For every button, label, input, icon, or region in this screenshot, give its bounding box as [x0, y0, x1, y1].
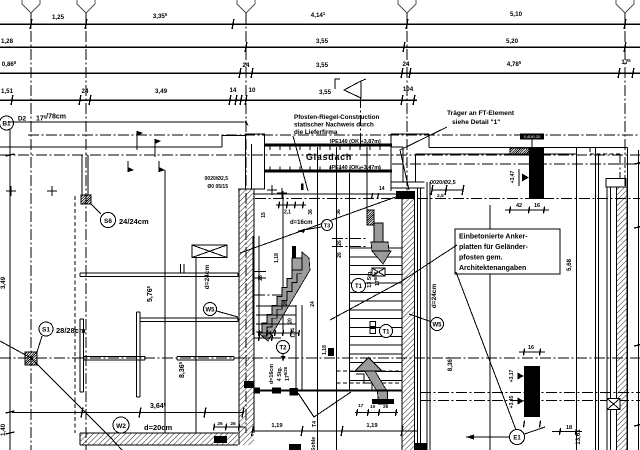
svg-text:platten für Geländer-: platten für Geländer-: [459, 244, 529, 251]
wall line x=595: [595, 148, 597, 450]
niche rect: [606, 179, 626, 188]
leader S6: [91, 204, 101, 214]
svg-text:5,20: 5,20: [506, 38, 519, 45]
beam leader line B1: [8, 120, 249, 127]
small dim line y=203: [276, 202, 306, 216]
labels left of stair wall: [205, 176, 229, 190]
step dim line: [259, 330, 300, 336]
svg-text:42: 42: [516, 203, 522, 209]
leader traeger: [400, 127, 447, 190]
svg-text:Sohle: Sohle: [311, 437, 317, 450]
plus mark 2: [47, 186, 57, 196]
stair line x=317.5: [317, 147, 319, 450]
sight line x=196: [195, 258, 197, 433]
wall line x=598: [598, 154, 600, 450]
svg-text:26: 26: [283, 300, 289, 306]
treads right flight upper: [350, 248, 402, 283]
wall line x=430: [429, 182, 431, 450]
stair line x=336.5: [336, 147, 338, 450]
svg-text:3,49: 3,49: [0, 276, 7, 289]
short axis y=295: [254, 294, 283, 296]
main axis y=358: [0, 357, 640, 359]
wall stub x=82: [82, 155, 88, 195]
right edge dim line: [634, 150, 640, 450]
interior wall horizontal upper: [80, 264, 238, 277]
right wall hatched: [617, 187, 628, 450]
dim 26/26 above bottom wall: [213, 421, 245, 431]
svg-text:14: 14: [230, 87, 237, 94]
svg-text:1,54: 1,54: [291, 328, 297, 338]
anchor plate on landing 3: [254, 388, 260, 394]
anchor mark 1: [137, 131, 143, 150]
text traeger: [447, 110, 515, 126]
svg-text:T1: T1: [382, 330, 390, 336]
svg-text:die Lieferfirma: die Lieferfirma: [294, 129, 338, 136]
sight line x=165: [164, 170, 166, 433]
stair flight upper (section): [257, 252, 310, 341]
stair dashed y=383: [337, 382, 403, 384]
svg-text:5,68: 5,68: [566, 258, 573, 271]
axis line y=135: [28, 134, 640, 136]
svg-text:W5: W5: [206, 308, 216, 314]
svg-text:1,18: 1,18: [322, 345, 328, 355]
anchor plate bottom right: [415, 443, 427, 450]
ticks below column: [523, 421, 540, 428]
wall label W2: [113, 417, 172, 433]
beam box with cross: [192, 245, 227, 258]
svg-text:T3: T3: [324, 224, 330, 230]
stair dashed y=371: [337, 370, 403, 372]
axis line y=198: [255, 198, 640, 200]
svg-text:15: 15: [261, 212, 267, 218]
svg-text:0020/Ø2,5: 0020/Ø2,5: [205, 176, 229, 182]
text pfosten-riegel: [294, 114, 380, 136]
black mark bottom center: [289, 444, 301, 450]
dashed line x=75: [74, 196, 76, 433]
svg-text:W2: W2: [116, 423, 126, 430]
anchor plate at wall landing: [244, 381, 254, 388]
stair line x=283: [282, 191, 284, 330]
svg-text:+3,45: +3,45: [509, 395, 515, 408]
svg-text:1,51: 1,51: [1, 88, 14, 95]
level mark +3,17: [509, 369, 524, 382]
svg-text:16: 16: [534, 203, 540, 209]
svg-text:10: 10: [249, 87, 256, 94]
dim 24 small: [254, 331, 281, 341]
treads right flight: [350, 292, 402, 380]
leader pfosten: [293, 136, 308, 191]
svg-text:D2: D2: [18, 116, 27, 123]
dimension chain row 1: [0, 11, 640, 29]
interior wall horizontal mid: [140, 318, 238, 322]
anchor plate in bottom wall: [214, 436, 227, 443]
axis line y=400: [420, 400, 640, 402]
dim line y=430 center: [252, 423, 418, 436]
svg-text:Glasdach: Glasdach: [306, 152, 352, 162]
svg-text:16: 16: [528, 345, 534, 351]
column S1: [25, 352, 37, 365]
label T2: [277, 341, 290, 362]
svg-text:1,28: 1,28: [1, 38, 14, 45]
svg-text:36: 36: [308, 209, 314, 215]
wall line x=607: [606, 187, 608, 450]
svg-text:1,25: 1,25: [52, 14, 65, 21]
svg-text:24: 24: [403, 61, 410, 68]
svg-text:T1: T1: [355, 284, 363, 290]
dim d=16cm T3: [290, 220, 333, 234]
svg-text:0020/Ø2,5: 0020/Ø2,5: [430, 180, 456, 186]
hatched block: [510, 148, 529, 155]
svg-text:W5: W5: [433, 323, 443, 329]
svg-text:17: 17: [358, 403, 364, 409]
svg-text:24: 24: [310, 301, 316, 307]
svg-text:28/28cm: 28/28cm: [56, 326, 86, 335]
svg-text:3,49: 3,49: [155, 88, 168, 95]
anchor mark 2: [155, 139, 161, 157]
wall label W5 left: [204, 265, 239, 317]
level mark +3,47: [510, 169, 529, 186]
svg-text:+3,17: +3,17: [509, 369, 515, 382]
plus mark 3: [267, 185, 277, 195]
grid axis marker x=625: [616, 0, 634, 13]
anchor plate top of right wall: [396, 191, 414, 199]
wall line x=420.5: [420, 188, 422, 450]
leader to anchor plates: [240, 194, 404, 253]
svg-text:d=20cm: d=20cm: [144, 423, 172, 432]
anchor plate on landing: [290, 388, 299, 396]
svg-text:26: 26: [383, 404, 389, 410]
stair arrow lower (up): [355, 358, 388, 405]
rot text T2 info: [269, 364, 291, 384]
svg-text:2,5: 2,5: [437, 193, 444, 199]
right parapet: [391, 134, 429, 191]
svg-text:104: 104: [403, 86, 414, 93]
dimension chain row 4: [0, 86, 417, 105]
section line x=360.5: [360, 97, 362, 147]
stair line x=259: [258, 236, 260, 335]
stair axis y=246: [332, 246, 368, 248]
beam IPE140 upper: [265, 139, 393, 145]
roof edge right: [416, 148, 628, 155]
svg-text:S1: S1: [42, 327, 50, 334]
column black top right: [529, 147, 544, 199]
grid axis line x=407: [406, 13, 408, 191]
mullion line x=367: [366, 147, 368, 210]
sight line x=490: [489, 205, 491, 450]
svg-text:24: 24: [266, 331, 272, 337]
wall line x=610: [610, 187, 612, 450]
interior wall vertical left: [80, 319, 84, 392]
landing edge lines at wall: [254, 272, 266, 279]
label T1 lower: [370, 322, 393, 338]
wall line x=576: [576, 148, 578, 450]
beam label B1: [0, 114, 66, 131]
section mark symbol: [335, 79, 366, 98]
note box einbetonierte: [455, 229, 560, 274]
grid axis line x=246: [245, 13, 247, 433]
dim 18 below: [552, 425, 582, 435]
svg-text:3,55: 3,55: [316, 38, 329, 45]
svg-text:siehe Detail "1": siehe Detail "1": [452, 119, 500, 126]
dim 16 above: [519, 345, 545, 356]
stair wall right hatched: [402, 191, 415, 450]
stairwell top edge line: [254, 193, 402, 195]
stair flight inner step line: [262, 274, 302, 336]
bottom wall hatched: [80, 433, 238, 445]
svg-text:0,40/0,20: 0,40/0,20: [524, 134, 541, 139]
svg-text:26: 26: [337, 252, 343, 258]
svg-text:+3,47: +3,47: [510, 170, 516, 183]
interior wall vertical mid: [137, 312, 141, 397]
interior wall horizontal lower left: [84, 357, 145, 361]
wall label W5 right: [409, 284, 444, 331]
svg-text:3,55: 3,55: [316, 62, 329, 69]
anchor plate at stair top: [292, 246, 296, 258]
svg-text:d=24cm: d=24cm: [431, 284, 438, 309]
wall line x=427: [426, 182, 428, 450]
label S1: [37, 322, 86, 352]
anchor plate small mid: [328, 348, 334, 356]
stair axis y=238: [332, 238, 368, 240]
level mark +3,45: [509, 395, 524, 408]
beam IPE140 lower: [265, 165, 393, 171]
stair wall left hatched: [239, 189, 254, 445]
label E1: [466, 427, 545, 445]
treads T2: [256, 306, 296, 324]
svg-text:d=16cm: d=16cm: [290, 220, 313, 226]
rot text T1 info: [367, 270, 381, 288]
leader V to T4: [298, 392, 351, 417]
svg-text:S6: S6: [104, 218, 112, 225]
svg-text:d=24cm: d=24cm: [204, 265, 211, 290]
grid axis marker x=31: [22, 0, 40, 13]
anchor mark 3: [128, 161, 134, 172]
svg-text:20: 20: [288, 318, 294, 324]
leader box to plate: [330, 245, 457, 320]
svg-text:IPE140 (OK +3,87m): IPE140 (OK +3,87m): [330, 139, 381, 145]
label T1 upper: [352, 279, 366, 293]
plus mark 4: [277, 188, 287, 198]
svg-text:pfosten gem.: pfosten gem.: [459, 255, 503, 262]
left parapet: [238, 134, 265, 189]
svg-text:Architektenangaben: Architektenangaben: [459, 265, 526, 272]
svg-text:26: 26: [337, 240, 343, 246]
small crossed box under arrow: [372, 268, 385, 276]
svg-text:1,40: 1,40: [0, 423, 7, 436]
svg-text:10: 10: [370, 404, 376, 410]
stair line x=253: [252, 236, 254, 335]
svg-text:d=16cm: d=16cm: [269, 364, 275, 384]
svg-text:1,18: 1,18: [274, 253, 280, 263]
svg-text:26: 26: [258, 275, 264, 281]
dim line y=412: [12, 408, 244, 418]
grid axis marker x=86: [77, 0, 95, 13]
svg-text:Einbetonierte Anker-: Einbetonierte Anker-: [459, 234, 528, 241]
stair arrow upper (down): [371, 223, 391, 264]
svg-text:Ø0 05/15: Ø0 05/15: [207, 184, 228, 190]
plus mark 1: [6, 186, 16, 196]
stair wall pair x=296: [296, 305, 302, 390]
grid axis line x=86: [85, 13, 87, 450]
hatched post: [367, 210, 374, 225]
label S6: [101, 213, 149, 228]
step outline white: [356, 374, 372, 390]
stair top landing piece: [292, 258, 302, 270]
svg-text:2,1: 2,1: [284, 210, 291, 216]
axis line y=164: [392, 163, 640, 165]
dimension chain row 2: [0, 38, 640, 52]
svg-text:statischer Nachweis durch: statischer Nachweis durch: [294, 122, 374, 129]
svg-text:5,10: 5,10: [510, 11, 523, 18]
dim line y=412 stairs: [355, 403, 398, 416]
left vertical dim line: [0, 128, 15, 450]
stair line x=349.5: [349, 173, 351, 390]
crossed box right: [607, 399, 620, 410]
svg-text:26: 26: [217, 421, 223, 427]
svg-text:14: 14: [379, 186, 385, 192]
column S6: [81, 195, 91, 204]
svg-text:24/24cm: 24/24cm: [119, 217, 149, 226]
grid axis marker x=246: [237, 0, 255, 13]
dim line y=190: [431, 185, 464, 199]
svg-text:IPE140 (OK +3,47m): IPE140 (OK +3,47m): [330, 165, 381, 171]
black tick mark: [301, 184, 304, 191]
anchor plate under arrow: [372, 399, 394, 404]
dashed detail right top: [590, 148, 620, 179]
leader box to E1: [456, 272, 516, 430]
column black bottom right: [524, 366, 540, 417]
svg-text:18: 18: [566, 425, 572, 431]
svg-text:1,19: 1,19: [271, 423, 283, 429]
grid axis line x=31: [30, 13, 32, 450]
svg-text:36: 36: [336, 209, 342, 215]
svg-text:E1: E1: [513, 436, 521, 442]
axis line y=392: [420, 392, 640, 394]
roof edge left: [0, 136, 246, 148]
building edge x=627.5: [627, 148, 629, 450]
dim 14 small: [372, 186, 385, 199]
svg-text:Pfosten-Riegel-Construction: Pfosten-Riegel-Construction: [294, 114, 380, 121]
svg-text:T2: T2: [279, 346, 287, 352]
svg-text:24: 24: [82, 88, 89, 95]
dimension chain row 3: [0, 58, 640, 78]
svg-text:3,55: 3,55: [319, 89, 332, 96]
svg-text:T4: T4: [312, 421, 318, 427]
grid axis line x=625: [624, 13, 626, 187]
interior wall horizontal lower right: [177, 357, 234, 361]
dim 42/16: [505, 203, 549, 214]
diagonal sight line: [0, 341, 122, 450]
svg-text:1,19: 1,19: [366, 423, 378, 429]
grid axis marker x=407: [398, 0, 416, 13]
landing edge line: [256, 390, 402, 392]
anchor plate on landing 2: [272, 388, 281, 394]
svg-text:Träger an FT-Element: Träger an FT-Element: [447, 110, 515, 117]
wall line x=417.5: [417, 188, 419, 450]
beam panel ticks: [270, 147, 380, 171]
axis line y=155: [0, 154, 640, 156]
anchor mark 4: [159, 161, 165, 172]
rot dim 26 pair: [337, 240, 343, 258]
svg-text:26: 26: [230, 421, 236, 427]
label 0.40/0.20: [520, 134, 544, 148]
